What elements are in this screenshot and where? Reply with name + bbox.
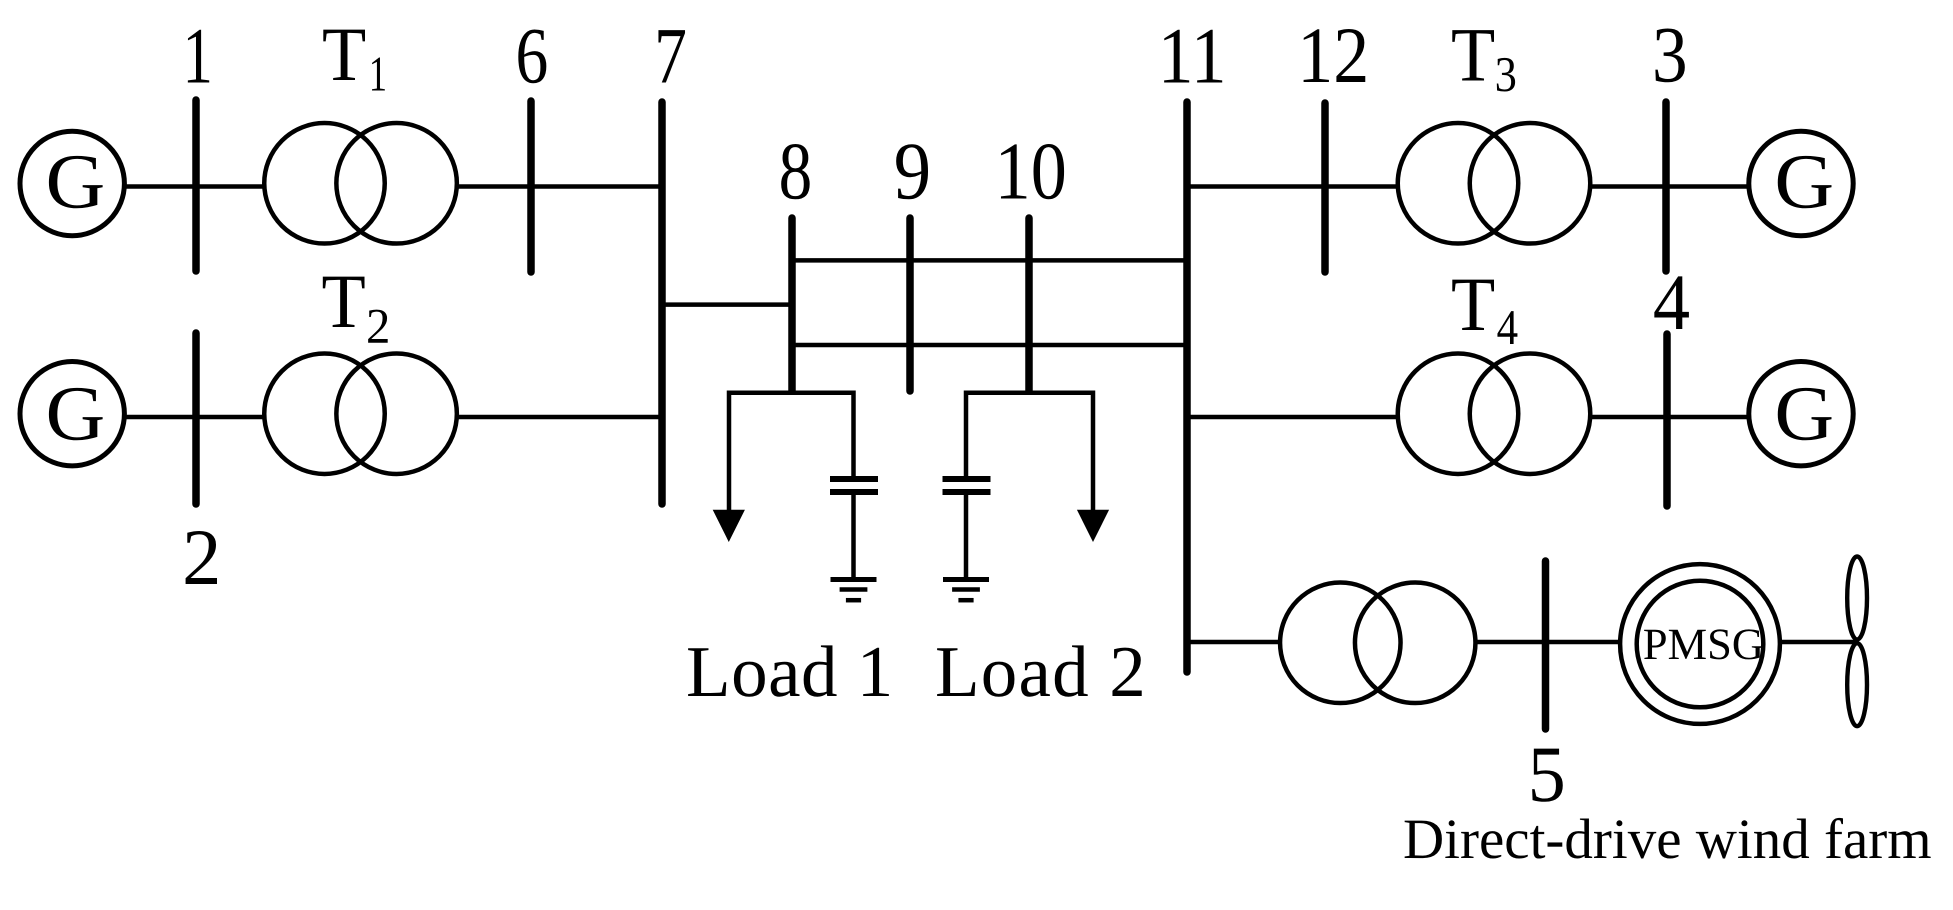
bus 12 xyxy=(1321,103,1329,272)
generator G3 xyxy=(1749,131,1853,235)
capacitor C2 plates xyxy=(943,476,991,482)
svg-text:Load 1: Load 1 xyxy=(686,631,894,712)
load 1 arrow xyxy=(713,510,745,542)
generator G4 xyxy=(1749,362,1853,466)
PMSG machine inner circle xyxy=(1637,581,1764,708)
wire bus 11 to wind transformer xyxy=(1187,640,1282,645)
load 2 arrow xyxy=(1077,510,1109,542)
generator G1 xyxy=(20,131,124,235)
bus 9 xyxy=(906,218,914,391)
bus 8 xyxy=(788,218,796,391)
svg-text:2: 2 xyxy=(182,514,221,602)
ground of C2 xyxy=(943,577,989,582)
ground of C1 xyxy=(831,577,877,582)
wire bus 11 to T4 xyxy=(1187,415,1398,420)
svg-text:8: 8 xyxy=(779,126,813,217)
bus 7 xyxy=(658,102,666,504)
svg-text:G: G xyxy=(1774,370,1834,457)
wire T2 to bus 7 xyxy=(456,415,662,420)
generator G2 xyxy=(20,362,124,466)
svg-text:Direct-drive wind farm: Direct-drive wind farm xyxy=(1403,808,1932,871)
svg-text:12: 12 xyxy=(1297,12,1369,100)
svg-text:9: 9 xyxy=(894,126,931,217)
capacitor C1 plates xyxy=(830,476,878,482)
label PMSG xyxy=(1644,630,1666,659)
svg-text:T: T xyxy=(1451,12,1495,98)
transmission line 2 bus 8 to bus 11 xyxy=(792,343,1187,348)
svg-text:T: T xyxy=(322,258,366,344)
svg-text:11: 11 xyxy=(1158,13,1227,101)
bus 11 xyxy=(1183,102,1191,672)
bus 6 xyxy=(527,101,535,272)
svg-text:3: 3 xyxy=(1652,12,1688,100)
wind farm transformer xyxy=(1280,583,1401,704)
transmission line 1 bus 8 to bus 11 xyxy=(792,258,1187,263)
wire PMSG to turbine blades xyxy=(1782,640,1857,645)
bus 3 xyxy=(1662,102,1670,271)
wire wind transformer to PMSG xyxy=(1476,640,1621,645)
svg-text:7: 7 xyxy=(654,13,687,101)
svg-text:5: 5 xyxy=(1528,731,1566,819)
transformer T3 xyxy=(1398,123,1519,244)
wire bus 11 to T3 xyxy=(1187,184,1398,189)
bus 5 xyxy=(1542,561,1550,729)
bus 10 xyxy=(1025,218,1033,391)
svg-text:T: T xyxy=(322,11,366,97)
wire T4 to G4 xyxy=(1590,415,1750,420)
svg-text:Load 2: Load 2 xyxy=(935,631,1147,712)
svg-text:4: 4 xyxy=(1653,259,1690,347)
svg-text:G: G xyxy=(46,138,106,225)
wind turbine blade upper xyxy=(1847,557,1867,640)
wire G2 to T2 xyxy=(125,415,266,420)
bus 2 xyxy=(192,333,200,504)
bus 1 xyxy=(192,100,200,271)
wind turbine blade lower xyxy=(1847,643,1867,726)
capacitor C1 stem xyxy=(851,495,856,578)
transformer T4 xyxy=(1398,353,1519,474)
transformer T2 xyxy=(264,353,385,474)
svg-text:1: 1 xyxy=(183,13,213,101)
capacitor C2 stem xyxy=(964,495,969,578)
wire G1 to T1 xyxy=(125,184,266,189)
wire bus 7 to bus 8 xyxy=(662,302,792,307)
bus 4 xyxy=(1663,334,1671,506)
load 2 bracket xyxy=(966,393,1093,512)
wire T1 to bus 7 xyxy=(456,184,662,189)
svg-text:10: 10 xyxy=(995,126,1067,217)
svg-text:6: 6 xyxy=(516,13,549,101)
svg-text:G: G xyxy=(1774,138,1834,225)
PMSG machine outer circle xyxy=(1620,564,1780,724)
load 1 bracket xyxy=(729,393,854,512)
wire T3 to G3 xyxy=(1590,184,1750,189)
transformer T1 xyxy=(264,123,385,244)
svg-text:G: G xyxy=(46,370,106,457)
svg-text:T: T xyxy=(1451,261,1495,347)
